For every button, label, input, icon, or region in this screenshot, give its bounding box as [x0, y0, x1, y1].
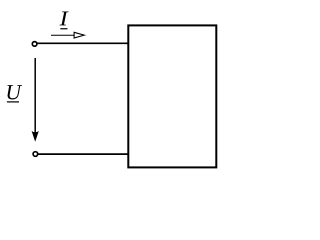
current arrow: [51, 32, 84, 38]
wire bottom: [38, 153, 128, 155]
underline of I: [60, 28, 67, 30]
label I: [60, 12, 69, 26]
terminal top: [32, 42, 37, 47]
voltage arrow U: [32, 58, 39, 142]
label U: [7, 85, 22, 99]
box (one-port network): [128, 25, 216, 167]
underline of U: [7, 101, 19, 103]
wire top: [37, 42, 128, 44]
terminal bottom: [33, 152, 38, 157]
